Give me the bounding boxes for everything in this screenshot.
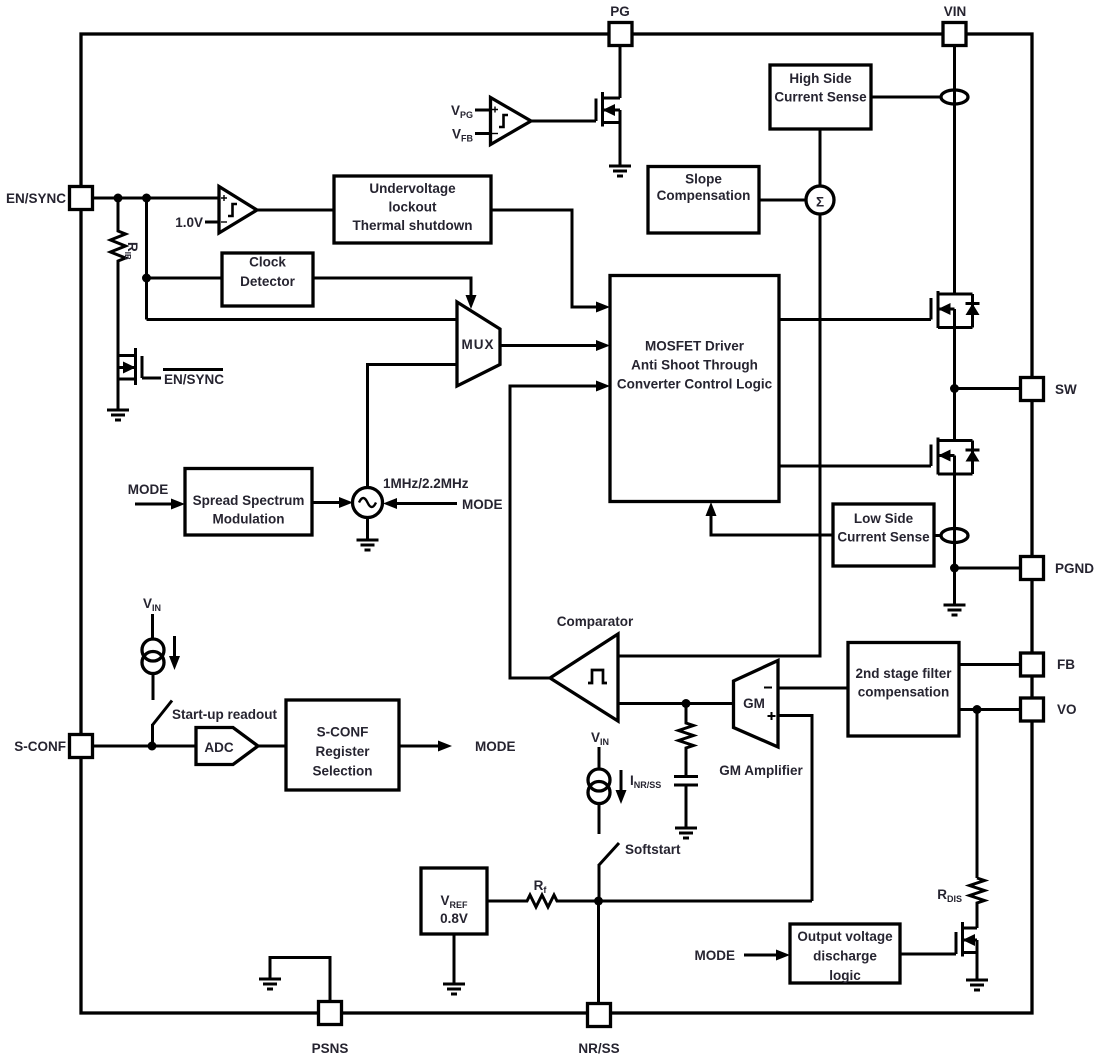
capacitor comp [674, 777, 698, 829]
node Rf junction [594, 897, 603, 906]
svg-text:SW: SW [1055, 382, 1077, 397]
transistor Q-EN (EN/SYNC pulldown, mirrored) [118, 348, 161, 410]
svg-text:lockout: lockout [388, 200, 437, 215]
wire slope to sigma [759, 199, 806, 202]
svg-text:FB: FB [1057, 657, 1075, 672]
wire to clock detector [147, 277, 223, 280]
svg-text:MUX: MUX [462, 337, 495, 352]
wire clock detector to MUX select [313, 278, 477, 309]
svg-text:PG: PG [610, 4, 630, 19]
svg-text:Slope: Slope [685, 172, 722, 187]
transistor Q-LS (low side) [931, 438, 973, 475]
resistor Rf [487, 878, 812, 907]
pin PSNS [312, 1002, 349, 1057]
ground (PG fet) [609, 166, 631, 176]
wire EN/SYNC pin to 1.0V comparator [92, 197, 219, 200]
transistor Q-HS (high side) [931, 291, 973, 328]
resistor RIB [111, 198, 141, 356]
svg-text:Start-up readout: Start-up readout [172, 707, 278, 722]
diode body HS [966, 304, 980, 316]
block Spread Spectrum Modulation [185, 469, 312, 536]
svg-text:Converter Control Logic: Converter Control Logic [617, 377, 773, 392]
wire MODE to discharge logic [695, 948, 791, 963]
wire register to MODE [399, 739, 516, 754]
svg-text:1.0V: 1.0V [175, 215, 203, 230]
wire sigma to comparator input [618, 214, 820, 656]
node SW junction [950, 384, 1021, 393]
IC boundary [81, 34, 1032, 1013]
pin S-CONF [14, 735, 92, 758]
wire driver to LS gate [779, 465, 931, 468]
svg-text:Current Sense: Current Sense [837, 530, 930, 545]
svg-text:MODE: MODE [475, 739, 516, 754]
op-amp main comparator [550, 614, 634, 721]
oscillator [353, 488, 383, 518]
wire UVLO to driver [491, 210, 610, 313]
ground (power) [944, 605, 966, 615]
svg-text:discharge: discharge [813, 949, 877, 964]
transistor Q-PG [596, 46, 620, 167]
wire to VO pin [959, 708, 1021, 711]
block Clock Detector [222, 253, 313, 306]
svg-text:Current Sense: Current Sense [774, 90, 867, 105]
resistor comp [679, 704, 694, 777]
transistor Q-DIS (discharge) [956, 922, 977, 980]
block High Side Current Sense [770, 65, 871, 129]
svg-text:Thermal shutdown: Thermal shutdown [352, 218, 472, 233]
current source INR/SS [588, 730, 661, 834]
op-amp PG comparator [475, 98, 531, 145]
block Slope Compensation [648, 167, 759, 234]
node EN junction 2 [142, 194, 151, 203]
wire MODE right arrow to oscillator [383, 497, 503, 512]
svg-text:Low Side: Low Side [854, 511, 914, 526]
sense element high side [941, 90, 968, 104]
pin VIN [943, 4, 966, 46]
wire EN sync clock to MUX input [147, 318, 458, 321]
node EN junction 1 [114, 194, 123, 203]
wire GM minus to 2nd stage filter [778, 687, 848, 690]
svg-text:MODE: MODE [695, 948, 736, 963]
wire to FB pin [959, 663, 1021, 666]
wire LS source down [953, 474, 956, 605]
svg-text:GM Amplifier: GM Amplifier [719, 763, 803, 778]
svg-text:1MHz/2.2MHz: 1MHz/2.2MHz [383, 476, 469, 491]
ground (PSNS) [259, 979, 281, 989]
adc ADC [196, 728, 258, 765]
wire spread spectrum to oscillator [312, 497, 353, 508]
ground (oscillator) [357, 518, 379, 551]
pin PGND [1021, 557, 1095, 580]
svg-text:High Side: High Side [789, 71, 852, 86]
op-amp 1.0V comparator [175, 187, 257, 234]
label EN/SYNC (overline) [163, 370, 224, 388]
pin NR/SS [578, 1004, 619, 1057]
block 2nd stage filter compensation [848, 643, 959, 737]
svg-text:PGND: PGND [1055, 561, 1094, 576]
ground (comp RC) [675, 828, 697, 838]
svg-text:GM: GM [743, 696, 765, 711]
op-amp GM amplifier [734, 661, 779, 748]
wire NR/SS node to pin [597, 901, 600, 1002]
node S-CONF junction [148, 742, 157, 751]
block Output voltage discharge logic [790, 924, 956, 983]
block VREF 0.8V [421, 868, 487, 934]
svg-text:Selection: Selection [312, 764, 372, 779]
wire EN junction2 down to clock/mux [145, 198, 148, 320]
wire PG comparator to PG fet gate [531, 120, 596, 123]
svg-text:Comparator: Comparator [557, 614, 634, 629]
switch Start-up readout [153, 701, 278, 747]
svg-text:Anti Shoot Through: Anti Shoot Through [631, 358, 758, 373]
svg-text:Output voltage: Output voltage [797, 929, 893, 944]
label 1MHz/2.2MHz [383, 476, 469, 491]
svg-text:EN/SYNC: EN/SYNC [164, 372, 224, 387]
block Undervoltage lockout Thermal shutdown [334, 176, 491, 243]
svg-text:compensation: compensation [858, 685, 950, 700]
svg-text:Σ: Σ [816, 195, 824, 210]
svg-text:2nd stage filter: 2nd stage filter [855, 666, 952, 681]
svg-text:S-CONF: S-CONF [14, 739, 66, 754]
svg-text:ADC: ADC [204, 740, 233, 755]
svg-text:Undervoltage: Undervoltage [369, 181, 456, 196]
sense element low side [941, 529, 968, 543]
mux MUX [457, 302, 500, 386]
svg-text:PSNS: PSNS [312, 1041, 349, 1056]
wire oscillator to MUX [368, 365, 458, 488]
svg-text:MODE: MODE [128, 482, 169, 497]
ground (discharge fet) [966, 980, 988, 990]
svg-text:MOSFET Driver: MOSFET Driver [645, 339, 745, 354]
wire VIN pin down [953, 46, 956, 295]
ground (EN pulldown) [107, 410, 129, 420]
block MODE label left [128, 482, 169, 497]
svg-text:S-CONF: S-CONF [317, 725, 369, 740]
wire comparator to UVLO [257, 209, 334, 212]
label VPG [451, 103, 473, 120]
wire S-CONF pin to ADC [92, 745, 196, 748]
node VO junction [973, 705, 982, 714]
svg-text:0.8V: 0.8V [440, 911, 468, 926]
svg-text:VIN: VIN [944, 4, 967, 19]
wire PSNS to ground [270, 958, 330, 1002]
svg-text:Softstart: Softstart [625, 842, 681, 857]
svg-text:logic: logic [829, 968, 861, 983]
wire HS sense to VIN line [871, 96, 941, 99]
wire comparator minus input from GM [618, 702, 734, 705]
label VFB [452, 127, 474, 144]
resistor RDIS [937, 710, 984, 929]
svg-text:Clock: Clock [249, 255, 286, 270]
wire MUX to driver [500, 340, 610, 351]
label GM Amplifier [719, 763, 803, 778]
node clock tee [142, 274, 151, 283]
wire LS sense to sense element [934, 534, 941, 537]
svg-text:Detector: Detector [240, 274, 296, 289]
svg-text:EN/SYNC: EN/SYNC [6, 191, 66, 206]
svg-text:MODE: MODE [462, 497, 503, 512]
wire GM plus to Rf node [778, 716, 812, 902]
wire comparator to driver [510, 381, 610, 679]
wire HS source to SW [953, 328, 956, 441]
pin PG [609, 4, 632, 46]
svg-text:NR/SS: NR/SS [578, 1041, 619, 1056]
node PGND junction [950, 564, 1021, 573]
wire LS sense to driver (arrow up) [706, 502, 834, 535]
pin EN/SYNC [6, 187, 93, 210]
node comp RC junction [682, 699, 691, 708]
wire driver to HS gate [779, 318, 931, 321]
block S-CONF Register Selection [286, 700, 399, 790]
diode body LS [966, 450, 980, 462]
svg-text:Compensation: Compensation [657, 188, 751, 203]
switch Softstart [599, 842, 681, 901]
svg-text:Register: Register [315, 744, 370, 759]
block Low Side Current Sense [833, 504, 934, 566]
svg-text:Spread Spectrum: Spread Spectrum [193, 493, 305, 508]
pin VO [1021, 698, 1077, 721]
svg-text:Modulation: Modulation [213, 512, 285, 527]
wire ADC to register box [258, 745, 286, 748]
pin FB [1021, 653, 1076, 676]
ground (VREF) [443, 934, 465, 994]
wire HS sense to sigma [819, 129, 822, 186]
wire MODE arrow to spread spectrum [135, 499, 185, 510]
block MOSFET Driver [610, 276, 779, 502]
current source S-CONF readout [142, 596, 180, 700]
svg-text:VO: VO [1057, 702, 1077, 717]
summing node sigma [806, 186, 834, 214]
pin SW [1021, 378, 1078, 401]
